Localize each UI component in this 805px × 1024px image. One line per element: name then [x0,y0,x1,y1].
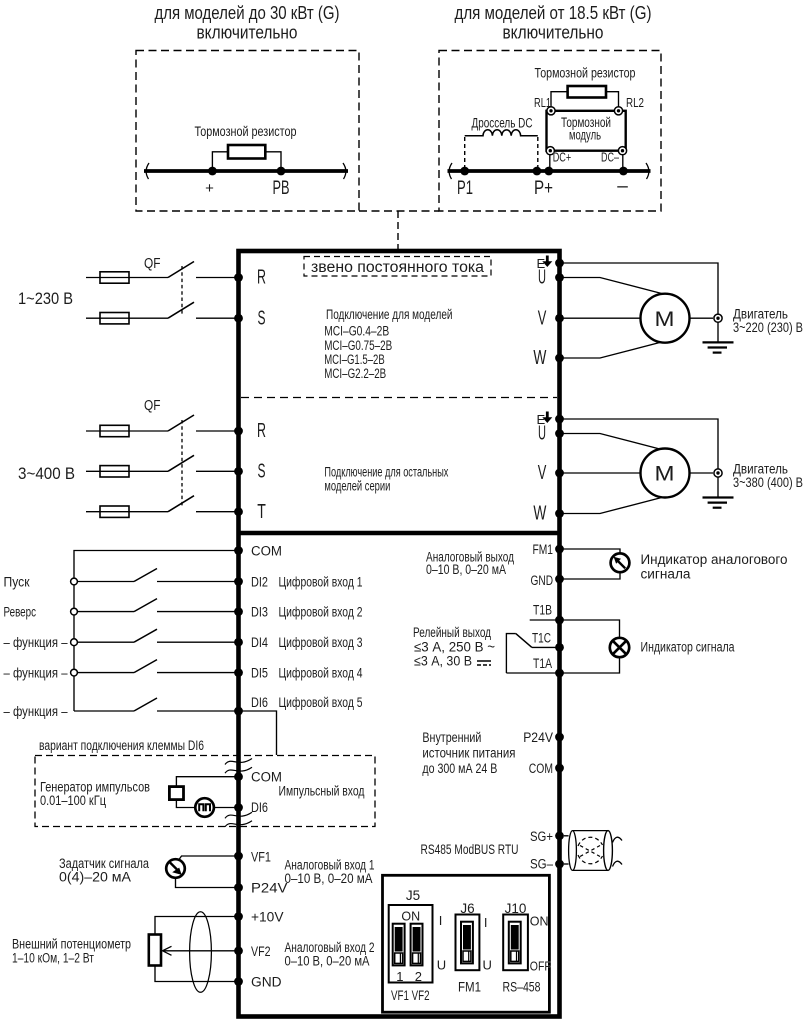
svg-text:Импульсный вход: Импульсный вход [279,784,365,799]
wire supply to fuse R [86,430,168,432]
svg-text:S: S [258,307,266,329]
wire supply to fuse R [86,277,168,279]
break mark right 2 [646,163,649,179]
svg-text:DC+: DC+ [553,151,572,165]
wire resistor left leg [212,152,228,171]
wire blade to terminal S [196,317,239,319]
current source arrow [170,863,178,871]
terminal +10V [234,912,243,921]
svg-text:≤3 А, 30 В: ≤3 А, 30 В [414,654,472,669]
DIP switch block box [383,875,550,1012]
svg-text:3~380 (400) В: 3~380 (400) В [733,475,803,490]
wire switch DI4 [77,641,134,643]
svg-text:– функция –: – функция – [4,635,68,650]
switch blade DI6 [134,698,157,711]
svg-text:Цифровой вход 3: Цифровой вход 3 [279,635,363,650]
svg-text:модуль: модуль [569,128,601,143]
svg-text:V: V [538,307,547,329]
svg-text:DI5: DI5 [251,666,268,681]
svg-text:Релейный выход: Релейный выход [413,625,491,640]
svg-text:P1: P1 [457,177,473,199]
cable shield ellipse [190,912,212,993]
wire blade to terminal R [196,277,239,279]
svg-text:3~400 В: 3~400 В [18,464,75,483]
wire DC+ to bus [549,155,551,171]
bus break squiggles [225,759,252,765]
svg-text:COM: COM [251,544,282,559]
terminal T [234,507,243,516]
lamp X cross [613,641,626,654]
wire square to COM [176,777,238,787]
svg-text:QF: QF [144,398,161,414]
terminal T1C [555,643,564,652]
wire RL2 to resistor [606,92,619,107]
svg-text:Внутренний: Внутренний [422,730,481,745]
svg-text:1–10 кОм, 1–2 Вт: 1–10 кОм, 1–2 Вт [12,951,94,966]
terminal VF2 [234,946,243,955]
svg-text:2: 2 [415,969,422,984]
svg-text:ON: ON [530,915,549,929]
fuse FU R [100,425,129,436]
wire square to pulse circle [176,800,195,808]
DIP switch J10 [509,922,521,964]
terminal P24V right [555,733,564,742]
wire switch DI3 [77,611,134,613]
J10 box [503,915,528,971]
terminal GND2 [234,977,243,986]
brake module box [547,111,626,151]
DIP switch J6 [461,922,473,964]
node + [208,167,217,176]
svg-text:– функция –: – функция – [4,666,68,681]
breaker blade R [168,415,194,431]
svg-text:RS–458: RS–458 [503,980,541,995]
dashed connector between option boxes [359,210,439,212]
terminal DI6 pulse [234,803,243,812]
breaker blade S [168,302,194,318]
svg-text:0–10 В, 0–20 мА: 0–10 В, 0–20 мА [426,562,506,577]
wire blade to terminal R [196,430,239,432]
svg-text:PB: PB [273,178,290,199]
terminal FM1 [555,545,564,554]
svg-text:RL2: RL2 [626,95,644,110]
terminal U [555,273,564,282]
wire resistor right leg [265,152,281,171]
wire to P24V [176,878,239,888]
wire GND [155,966,239,982]
wire to terminal DI2 [157,581,239,583]
svg-text:моделей серии: моделей серии [324,479,390,494]
cable continuation squiggles [613,837,623,842]
DC symbol [477,660,491,662]
svg-text:1~230 В: 1~230 В [18,289,73,308]
wire stub SG- [564,863,569,865]
terminal W [555,509,564,518]
svg-text:MCI–G2.2–2B: MCI–G2.2–2B [324,366,386,381]
svg-text:T1C: T1C [532,631,551,646]
svg-text:Реверс: Реверс [4,605,37,620]
wire blade to terminal T [196,511,239,513]
svg-text:+10V: +10V [251,910,284,925]
inductor L (choke) [465,130,538,136]
fuse FU T [100,506,129,517]
wire to terminal DI3 [157,611,239,613]
wire T1B to lamp [530,620,620,638]
terminal SG+ [555,831,564,840]
svg-text:FM1: FM1 [533,542,554,557]
svg-text:FM1: FM1 [458,980,481,995]
svg-text:QF: QF [144,256,161,272]
DC link label dashed box [304,257,491,277]
svg-text:Тормозной резистор: Тормозной резистор [535,66,636,81]
terminal U [555,429,564,438]
terminal COM pulse [234,772,243,781]
J6 box [456,915,480,971]
terminal E [555,259,564,268]
thick divider power/control [239,531,560,536]
svg-text:VF1: VF1 [251,850,271,865]
svg-text:U: U [483,958,492,973]
svg-text:Цифровой вход 1: Цифровой вход 1 [279,575,363,590]
svg-text:U: U [538,267,546,289]
wire supply to fuse S [86,470,168,472]
wire V to motor [560,472,641,474]
svg-text:I: I [439,913,443,928]
svg-text:0(4)–20 мА: 0(4)–20 мА [59,870,131,885]
terminal GND analog [555,575,564,584]
svg-text:MCI–G1.5–2B: MCI–G1.5–2B [324,352,385,367]
wire stub SG+ [564,835,569,837]
resistor (brake) 2 [568,86,606,98]
terminal RL1 [547,107,555,115]
svg-text:включительно: включительно [503,23,604,43]
switch contact circle DI4 [71,639,78,646]
svg-text:VF1 VF2: VF1 VF2 [391,988,430,1003]
svg-text:M: M [655,307,675,331]
motor ground terminal [714,469,722,477]
DIP switch J5-1 [393,924,405,966]
wire motor to ground terminal [690,317,714,319]
DC bus wire (P1 P+ -) [448,169,651,173]
ground symbol [703,341,734,343]
terminal DI6 [234,707,243,716]
wire W to motor [560,494,678,514]
wire U to motor [560,434,678,454]
motor M circle [641,449,690,498]
wire switch DI6 [74,710,134,712]
dashed box DI6 variant [35,756,375,827]
terminal SG- [555,860,564,869]
svg-text:≤3 А, 250 В ~: ≤3 А, 250 В ~ [414,640,495,655]
svg-text:RS485 ModBUS RTU: RS485 ModBUS RTU [421,842,519,857]
svg-text:ON: ON [401,910,420,924]
DIP switch J5-2 [411,924,423,966]
node P+ (double) [533,167,542,176]
svg-text:V: V [538,462,547,484]
wire V to motor [560,317,641,319]
svg-text:вариант подключения клеммы DI6: вариант подключения клеммы DI6 [39,738,204,753]
ground symbol [703,496,734,498]
svg-text:+: + [205,180,214,197]
terminal E [555,415,564,424]
svg-text:T1B: T1B [533,603,552,618]
svg-text:W: W [533,347,546,369]
svg-text:–: – [617,176,628,197]
svg-text:Цифровой вход 2: Цифровой вход 2 [279,605,363,620]
wire blade to terminal S [196,470,239,472]
terminal VF1 [234,852,243,861]
resistor (brake) [228,145,265,159]
relay common vertical [506,634,515,673]
terminal COM [234,546,243,555]
wire supply to fuse S [86,317,168,319]
breaker blade S [168,455,194,471]
svg-text:DI2: DI2 [251,575,268,590]
dashed drop to inverter top [397,211,399,250]
svg-text:GND: GND [251,975,282,990]
svg-text:Дроссель DC: Дроссель DC [472,116,533,131]
twisted pair cable symbol [573,830,609,832]
motor ground terminal [714,314,722,322]
node minus [619,167,628,176]
svg-text:SG+: SG+ [530,829,553,844]
J5 box [389,905,433,983]
svg-text:R: R [257,420,266,442]
svg-text:DI6: DI6 [251,800,268,815]
svg-text:1: 1 [396,969,403,984]
potentiometer body [149,935,161,966]
svg-text:Цифровой вход 4: Цифровой вход 4 [279,666,363,681]
switch contact circle DI5 [71,669,78,676]
breaker QF1 mechanical link [181,266,183,314]
svg-text:Тормозной резистор: Тормозной резистор [195,124,297,139]
switch blade DI5 [134,660,157,673]
svg-text:COM: COM [251,770,282,785]
break mark left [146,163,149,179]
wire choke right leg dashed [537,137,539,171]
break mark right [343,163,346,179]
svg-text:VF2: VF2 [251,944,271,959]
wire indicator to GND [560,572,621,579]
svg-text:T1A: T1A [533,656,552,671]
svg-text:DC–: DC– [601,151,619,165]
breaker blade R [168,262,194,278]
dashed box: braking resistor option up to 30 kW [136,51,359,212]
wire choke left leg dashed [464,137,466,171]
break mark left 2 [449,163,452,179]
dashed divider between 230V and 400V sections [241,397,557,399]
svg-text:P+: P+ [534,177,553,199]
svg-text:Подключение для остальных: Подключение для остальных [324,465,448,480]
pulse generator square [169,787,183,800]
svg-text:GND: GND [531,573,554,588]
terminal T1B [555,616,564,625]
terminal DI5 [234,668,243,677]
pulse symbol circle [195,798,214,817]
svg-text:Индикатор аналогового: Индикатор аналогового [641,552,788,567]
wire DC- to bus [622,155,624,171]
terminal P24V [234,883,243,892]
wire pulse circle to DI6 [214,807,239,809]
terminal DI3 [234,607,243,616]
svg-text:до 300 мА 24 В: до 300 мА 24 В [422,761,497,776]
switch blade DI3 [134,599,157,612]
wire switch DI5 [77,672,134,674]
svg-text:MCI–G0.75–2B: MCI–G0.75–2B [324,338,392,353]
breaker QF2 mechanical link [181,420,183,506]
svg-text:Подключение для моделей: Подключение для моделей [326,307,453,322]
svg-text:Индикатор сигнала: Индикатор сигнала [641,640,735,655]
svg-text:0.01–100 кГц: 0.01–100 кГц [40,793,106,808]
node PB [277,167,286,176]
wire to terminal DI6 [157,710,239,712]
terminal COM right [555,764,564,773]
wire supply to fuse T [86,511,168,513]
node P1 [460,167,469,176]
svg-text:DI3: DI3 [251,605,268,620]
inverter enclosure box [239,251,560,1017]
wire VF1 [178,856,238,861]
terminal V [555,314,564,323]
wire +10V [155,917,239,935]
svg-text:U: U [437,958,446,973]
svg-text:DI6: DI6 [251,695,268,710]
twisted pair waves [578,837,603,846]
relay blade [516,634,532,648]
svg-text:сигнала: сигнала [641,567,691,582]
svg-text:для моделей до 30 кВт (G): для моделей до 30 кВт (G) [155,3,340,23]
wire switch DI2 [77,581,134,583]
terminal R [234,427,243,436]
E ground arrow symbol [546,412,549,418]
breaker blade T [168,496,194,512]
svg-text:P24V: P24V [251,881,287,896]
wire VF2 wiper [163,950,239,952]
svg-text:Цифровой вход 5: Цифровой вход 5 [279,695,363,710]
terminal DC+ [546,147,554,155]
svg-text:S: S [258,461,266,483]
wire COM to switch bus [74,551,239,712]
fuse FU S [100,313,129,324]
svg-text:включительно: включительно [197,23,298,43]
svg-text:P24V: P24V [523,730,553,745]
switch contact circle DI3 [71,608,78,615]
svg-text:MCI–G0.4–2B: MCI–G0.4–2B [324,324,389,339]
wire E to motor frame ground [560,263,719,342]
svg-text:U: U [538,423,546,445]
svg-text:T: T [257,501,266,523]
wire U to motor [560,278,678,298]
signal lamp circle [610,638,629,657]
svg-text:Пуск: Пуск [4,575,30,590]
svg-text:0–10 В, 0–20 мА: 0–10 В, 0–20 мА [285,954,370,969]
terminal RL2 [614,107,622,115]
meter arrow NW [618,561,625,568]
wire RL1 to resistor [551,92,568,107]
terminal R [234,273,243,282]
svg-text:I: I [484,915,488,930]
svg-text:M: M [655,462,675,486]
analog signal indicator circle (meter) [611,553,630,572]
terminal T1A [555,669,564,678]
wire W to motor [560,338,678,358]
current source circle [166,859,185,878]
terminal S [234,314,243,323]
wire lamp to T1A [506,657,619,673]
wire FM1 to indicator [560,549,621,554]
pulse waveform glyph [199,804,210,811]
dashed box: brake module option from 18.5 kW [439,51,661,212]
svg-text:W: W [533,503,546,525]
DC bus wire (+ ... PB) [144,169,348,173]
terminal W [555,354,564,363]
svg-text:источник питания: источник питания [422,746,515,761]
switch blade DI2 [134,569,157,582]
svg-text:0–10 В, 0–20 мА: 0–10 В, 0–20 мА [285,871,373,886]
fuse FU R [100,272,129,283]
wire motor to ground terminal [690,472,714,474]
terminal S [234,467,243,476]
motor M circle [641,294,690,343]
svg-text:J5: J5 [406,888,420,903]
terminal V [555,469,564,478]
fuse FU S [100,466,129,477]
wire E to motor frame ground [560,419,719,498]
wire T1C [532,646,560,648]
E ground arrow symbol [546,256,549,262]
svg-text:для моделей от 18.5 кВт (G): для моделей от 18.5 кВт (G) [455,3,652,23]
svg-text:DI4: DI4 [251,635,268,650]
wire DI6 to variant box [239,711,277,755]
svg-text:звено постоянного тока: звено постоянного тока [311,259,484,276]
terminal DI4 [234,638,243,647]
terminal DC- [618,147,626,155]
svg-text:– функция –: – функция – [4,704,68,719]
svg-text:Внешний потенциометр: Внешний потенциометр [12,937,131,952]
switch blade DI4 [134,629,157,642]
terminal DI2 [234,577,243,586]
svg-text:COM: COM [529,761,553,776]
wiper arrowhead [163,946,172,955]
wire to terminal DI4 [157,641,239,643]
wire to terminal DI5 [157,672,239,674]
svg-text:SG–: SG– [530,857,553,872]
switch contact circle DI2 [71,578,78,585]
cable right ellipse [604,831,613,871]
svg-text:R: R [257,267,266,289]
svg-text:OFF: OFF [530,960,551,974]
svg-text:3~220 (230) В: 3~220 (230) В [733,320,803,335]
